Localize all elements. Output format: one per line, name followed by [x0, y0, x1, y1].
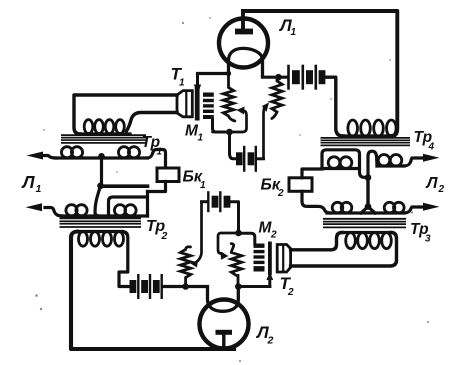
- wire Бк2 to Тр3 secondary: [302, 191, 330, 213]
- wire М2 feed from grid wire: [268, 280, 271, 287]
- svg-text:4: 4: [428, 142, 435, 153]
- transformer Тр4 core: [321, 137, 411, 139]
- wire Тр2 primary left to bottom rail: [71, 232, 234, 350]
- line arrow lower-left: [26, 203, 43, 211]
- wire filament battery to Л2 lead: [163, 285, 208, 288]
- transformer Тр4 secondary coil: [322, 167, 358, 170]
- wire center taps Тр4-Тр3: [366, 178, 369, 208]
- wire bias left stub: [202, 200, 208, 203]
- svg-text:Л: Л: [21, 172, 36, 192]
- transformer Тр3 secondary coil: [327, 211, 404, 214]
- junction grid node Л2: [235, 283, 242, 290]
- transformer Тр2 secondary coil: [45, 208, 62, 217]
- battery Ба anode: [287, 65, 290, 90]
- wire node to Тр2 hat: [101, 184, 148, 188]
- junction Тр4 center tap: [365, 174, 372, 181]
- battery Бс2 bias: [207, 191, 209, 212]
- transformer Тр3 primary coil: [342, 231, 392, 234]
- svg-text:3: 3: [425, 234, 431, 245]
- wire grid Л1: [198, 72, 229, 75]
- wire node to R4 wiper: [218, 233, 239, 254]
- tube Л1: [219, 19, 268, 78]
- wire М1 feed from grid wire: [196, 74, 199, 85]
- wire node curve to Тр2 center tap: [95, 186, 101, 216]
- svg-text:1: 1: [291, 27, 297, 38]
- svg-text:1: 1: [179, 78, 185, 89]
- junction grid node Л1: [226, 71, 231, 76]
- wire Т1 top to Тр1 primary: [74, 95, 177, 134]
- transformer Тр4 primary coil: [343, 134, 391, 137]
- resistor R4: [231, 244, 242, 287]
- junction Тр3 center tap: [365, 203, 372, 210]
- resistor R1: [223, 74, 235, 122]
- wire grid node to М2: [238, 285, 269, 288]
- microphone М2 diaphragm: [268, 242, 272, 276]
- microphone М2 coil: [254, 244, 265, 272]
- resistor R3: [180, 247, 190, 287]
- wire battery to Тр4 primary: [325, 77, 343, 136]
- transformer Тр3 core: [323, 218, 406, 220]
- wire bias battery to R2 wiper: [257, 157, 264, 160]
- wire Бк1 to Тр2 hat junction: [148, 182, 166, 192]
- svg-text:2: 2: [270, 230, 277, 241]
- wire anode Л1 to top rail and down to Тр4 primary: [243, 11, 397, 136]
- tube Л2: [200, 287, 249, 349]
- svg-text:2: 2: [267, 335, 274, 347]
- junction R3 node: [182, 283, 189, 290]
- telephone Т2: [277, 245, 290, 273]
- wire anode Л2 to bottom rail: [222, 335, 225, 350]
- junction grid-battery node: [275, 74, 282, 81]
- wire Тр4 secondary step to Бк2: [302, 169, 322, 178]
- wire plate Л1 right: [263, 76, 288, 79]
- wiper arrow R2: [262, 103, 269, 113]
- transformer Тр4 secondary hat: [322, 150, 368, 178]
- wire Тр2 primary right to filament battery: [119, 232, 130, 287]
- junction node left: [97, 183, 104, 190]
- svg-text:2: 2: [277, 188, 284, 199]
- wire bias right to node: [230, 202, 238, 233]
- line arrow lower-right: [423, 203, 440, 211]
- transformer Тр2 core: [60, 217, 142, 219]
- transformer Тр1 core: [61, 134, 146, 136]
- svg-text:1: 1: [36, 183, 42, 195]
- line arrow upper-left: [27, 152, 44, 160]
- telephone Т1: [177, 91, 192, 117]
- wire Т2 top to Тр3 primary: [291, 233, 342, 250]
- resistor R2: [272, 77, 282, 118]
- svg-text:1: 1: [198, 133, 204, 144]
- junction Тр1 center tap: [98, 153, 105, 160]
- wiper arrow R1 and wire to node: [237, 107, 245, 115]
- transformer Тр1 primary coil: [80, 132, 130, 135]
- transformer Тр2 secondary hat: [109, 192, 148, 217]
- svg-text:1: 1: [200, 180, 206, 191]
- transformer Тр1 secondary coil: [44, 156, 57, 159]
- battery Бн filament: [130, 280, 137, 293]
- svg-text:2: 2: [161, 230, 168, 242]
- wire Т2 bottom to Тр3 primary: [291, 233, 397, 267]
- line arrow upper-right: [423, 154, 440, 162]
- microphone М1 diaphragm: [195, 87, 200, 121]
- svg-text:2: 2: [287, 287, 294, 298]
- wire node to bias battery: [230, 132, 237, 159]
- transformer Тр2 primary coil: [77, 230, 122, 233]
- wiper arrow R3 and wire to battery: [191, 260, 199, 268]
- svg-text:Л: Л: [426, 175, 439, 192]
- battery Бс1 bias: [236, 152, 243, 165]
- wire Тр1 secondary right end to Бк1: [148, 150, 166, 169]
- junction bias node top: [226, 129, 233, 136]
- wire Т1 bottom to Тр1 primary: [127, 113, 178, 132]
- junction bias node bottom: [235, 230, 242, 237]
- wire М2 coil to bias node: [239, 233, 255, 243]
- microphone М1 coil: [203, 93, 214, 120]
- key Бк2: [289, 178, 312, 192]
- svg-text:2: 2: [438, 184, 445, 195]
- wire Тр1 tap down to node: [100, 158, 103, 186]
- wire М1 coil to R1 node: [213, 119, 230, 132]
- key Бк1: [157, 168, 179, 182]
